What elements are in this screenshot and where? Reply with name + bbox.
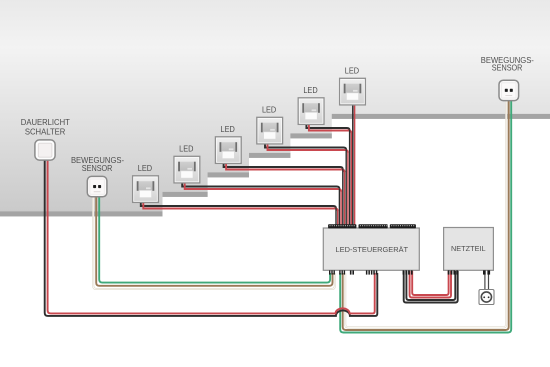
svg-text:SCHALTER: SCHALTER [25, 127, 66, 137]
svg-text:LED: LED [221, 125, 236, 134]
svg-text:LED-STEUERGERÄT: LED-STEUERGERÄT [336, 245, 409, 254]
svg-text:LED: LED [262, 106, 277, 115]
svg-text:NETZTEIL: NETZTEIL [451, 244, 486, 253]
svg-text:LED: LED [345, 67, 360, 76]
svg-text:SENSOR: SENSOR [492, 62, 523, 72]
svg-text:LED: LED [303, 86, 318, 95]
svg-text:LED: LED [179, 145, 194, 154]
svg-text:LED: LED [138, 164, 153, 173]
svg-text:SENSOR: SENSOR [82, 163, 113, 173]
